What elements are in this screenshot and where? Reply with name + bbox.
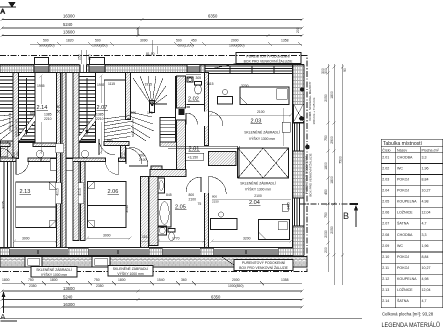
svg-text:VÝŠKY 1300 mm: VÝŠKY 1300 mm (249, 136, 275, 141)
bathroom top wall (150, 170, 186, 177)
svg-text:2210: 2210 (44, 117, 52, 121)
svg-text:ŠATNA: ŠATNA (397, 298, 409, 303)
svg-text:500: 500 (95, 39, 101, 43)
svg-text:2.11: 2.11 (382, 266, 389, 270)
svg-text:500(1200): 500(1200) (178, 44, 193, 48)
svg-text:2.05: 2.05 (382, 200, 389, 204)
svg-text:1800: 1800 (50, 278, 58, 282)
room label 2.03 (145, 82, 280, 141)
door arc stair exit (99, 139, 115, 155)
bottom interior dims (22, 234, 251, 241)
svg-text:2150: 2150 (16, 151, 20, 159)
room 2.04 desk (211, 212, 238, 230)
svg-text:1820: 1820 (66, 39, 74, 43)
stair void head wall (209, 152, 237, 166)
tiny rotated dims top right (321, 68, 347, 74)
landing wall below winder (104, 142, 129, 146)
winder stair left unit (cut at edge) (0, 77, 13, 157)
svg-text:2.13: 2.13 (382, 288, 389, 292)
bedroom top walls (0, 158, 126, 162)
bottom interior dim lines (13, 237, 293, 243)
svg-text:800: 800 (189, 193, 195, 197)
black dot drain (305, 145, 310, 150)
svg-text:POKOJ: POKOJ (397, 255, 409, 259)
stair flight stripes left unit (19, 73, 36, 143)
svg-text:POKOJ: POKOJ (397, 189, 409, 193)
svg-text:A: A (1, 314, 6, 321)
svg-text:VÝŠKY 1000 mm: VÝŠKY 1000 mm (117, 271, 143, 276)
svg-text:VÝŠKY 1000 mm: VÝŠKY 1000 mm (41, 272, 67, 277)
svg-text:LEGENDA MATERIÁLŮ: LEGENDA MATERIÁLŮ (382, 320, 441, 329)
svg-text:500: 500 (43, 39, 49, 43)
party wall (double with gap) (57, 73, 67, 248)
chimney block (294, 104, 304, 122)
svg-text:1800: 1800 (330, 176, 334, 184)
svg-text:4,98: 4,98 (422, 277, 429, 281)
svg-text:2050: 2050 (330, 226, 334, 234)
svg-text:SKLENĚNÉ ZÁBRADLÍ: SKLENĚNÉ ZÁBRADLÍ (36, 267, 72, 272)
WC fixtures (187, 77, 202, 94)
radiators at party wall (50, 159, 56, 171)
bottom small dims row (2, 278, 302, 288)
svg-text:1385: 1385 (44, 113, 52, 117)
svg-text:POKOJ: POKOJ (397, 177, 409, 181)
stairwell wall right unit (73, 73, 79, 241)
balcony paving band (0, 257, 307, 268)
svg-text:2100: 2100 (189, 198, 197, 202)
svg-text:200: 200 (296, 27, 300, 33)
svg-text:2210: 2210 (96, 117, 104, 121)
lower flight slanted treads right unit (104, 80, 154, 141)
svg-text:800: 800 (212, 195, 217, 199)
svg-text:8,84: 8,84 (422, 177, 429, 181)
svg-text:800: 800 (107, 139, 113, 143)
svg-text:Tabulka místností: Tabulka místností (383, 141, 423, 147)
svg-text:ŠATNA: ŠATNA (397, 221, 409, 226)
svg-text:12,04: 12,04 (422, 211, 431, 215)
svg-text:4,7: 4,7 (422, 222, 427, 226)
window top 3 (186, 65, 201, 75)
svg-text:4,7: 4,7 (422, 299, 427, 303)
svg-text:12,04: 12,04 (422, 288, 431, 292)
svg-text:305: 305 (196, 76, 202, 80)
svg-text:SKLENĚNÉ ZÁBRADLÍ: SKLENĚNÉ ZÁBRADLÍ (244, 130, 280, 135)
svg-text:250: 250 (78, 54, 82, 60)
svg-text:1800: 1800 (2, 278, 10, 282)
svg-text:1000(850): 1000(850) (228, 284, 243, 288)
door arc bathroom (186, 177, 201, 192)
wall between 2.05 and 2.04 (205, 177, 209, 248)
bathroom fixtures 2.05 (158, 178, 175, 241)
svg-text:3000: 3000 (22, 237, 30, 241)
svg-text:1770: 1770 (172, 237, 180, 241)
svg-text:CHODBA: CHODBA (397, 233, 413, 237)
svg-text:3200: 3200 (243, 237, 251, 241)
svg-text:90: 90 (343, 68, 347, 72)
room label 2.04 (212, 181, 291, 207)
svg-text:3,3: 3,3 (422, 155, 427, 159)
svg-text:PURENITOVÝ PODOKENNÍ: PURENITOVÝ PODOKENNÍ (242, 261, 285, 265)
svg-text:2150: 2150 (123, 151, 127, 159)
svg-text:NÁŠLAPY 270: NÁŠLAPY 270 (130, 118, 135, 137)
stairwell wall left unit (13, 73, 19, 159)
svg-text:1385: 1385 (96, 113, 104, 117)
bed room 2.13 (two singles) (16, 182, 56, 228)
radiator room 2.04 (282, 204, 288, 211)
level marks in stair bands (56, 144, 64, 153)
svg-text:2.07: 2.07 (382, 222, 389, 226)
svg-text:4015: 4015 (56, 188, 60, 196)
svg-text:10,27: 10,27 (422, 266, 431, 270)
svg-text:1000(850): 1000(850) (39, 44, 54, 48)
svg-text:1358: 1358 (281, 39, 289, 43)
svg-text:16300: 16300 (63, 14, 75, 19)
svg-text:1115: 1115 (207, 82, 214, 86)
room 2.03 bed (240, 87, 289, 105)
svg-text:2900: 2900 (330, 136, 334, 144)
glazed wall top right (205, 65, 295, 74)
title block top line (0, 317, 362, 319)
svg-text:2.09: 2.09 (382, 244, 389, 248)
room label 2.07 (57, 75, 108, 155)
svg-text:13600: 13600 (63, 30, 75, 35)
svg-text:BOX PRO VENKOVNÍ ŽALUZIE: BOX PRO VENKOVNÍ ŽALUZIE (308, 153, 313, 196)
svg-text:2.10: 2.10 (382, 255, 389, 259)
svg-text:Plocha (m²: Plocha (m² (422, 148, 440, 152)
bottom dim 16300 (1, 302, 304, 309)
svg-text:1540: 1540 (157, 278, 165, 282)
svg-text:1800: 1800 (118, 278, 126, 282)
glass railing label 2 (108, 266, 153, 277)
right vertical dim chain 2 (330, 64, 336, 285)
dimension line 5240 (1, 22, 304, 36)
svg-text:2.02: 2.02 (382, 166, 389, 170)
section marker A top (0, 3, 16, 16)
svg-text:Číslo: Číslo (382, 147, 390, 152)
svg-text:NÁŠLAPY 270: NÁŠLAPY 270 (14, 118, 19, 137)
dimension line 13600 (1, 30, 304, 38)
room label 2.05 (166, 193, 201, 211)
svg-text:750: 750 (28, 278, 34, 282)
svg-text:900: 900 (131, 111, 137, 115)
svg-text:PURENITOVÝ PODOKENNÍ: PURENITOVÝ PODOKENNÍ (246, 55, 289, 59)
svg-text:8,84: 8,84 (422, 255, 429, 259)
svg-text:NÁŠLAPY 270: NÁŠLAPY 270 (7, 112, 12, 131)
svg-text:3465: 3465 (287, 202, 291, 210)
svg-text:BOX PRO VENKOVNÍ ŽALUZIE: BOX PRO VENKOVNÍ ŽALUZIE (239, 265, 289, 270)
svg-text:16300: 16300 (63, 302, 75, 307)
right vertical dim chain 1 (324, 64, 330, 272)
svg-text:5240: 5240 (63, 22, 73, 27)
svg-text:KOUPELNA: KOUPELNA (397, 277, 417, 281)
dimension line 16300 (1, 14, 304, 22)
svg-text:1000(650): 1000(650) (229, 44, 244, 48)
svg-text:2.08: 2.08 (382, 233, 389, 237)
svg-text:WC: WC (397, 244, 403, 248)
svg-text:VÝŠKY 1300 mm: VÝŠKY 1300 mm (245, 187, 271, 192)
bottom exterior wall (0, 248, 304, 256)
svg-text:1800: 1800 (330, 91, 334, 99)
svg-text:3025: 3025 (2, 201, 6, 209)
svg-text:1000(850): 1000(850) (92, 44, 107, 48)
svg-text:450: 450 (324, 189, 328, 195)
svg-text:SKLENĚNÉ ZÁBRADLÍ: SKLENĚNÉ ZÁBRADLÍ (113, 266, 149, 271)
svg-text:Celková plocha [m²]: 93,28: Celková plocha [m²]: 93,28 (382, 312, 434, 317)
svg-text:2.03: 2.03 (382, 177, 389, 181)
right exterior wall (293, 65, 305, 256)
room label 2.14 (30, 75, 52, 155)
wall left edge stub (0, 141, 13, 158)
svg-text:LOŽNICE: LOŽNICE (397, 287, 413, 292)
bottom windows (french) (9, 250, 278, 254)
door arc bedroom 2.13 (16, 162, 29, 175)
svg-text:POKOJ: POKOJ (397, 266, 409, 270)
corridor wall left unit (0, 143, 57, 147)
door arc chodba to 2.03 (204, 112, 223, 127)
svg-text:LOŽNICE: LOŽNICE (397, 210, 413, 215)
svg-text:845: 845 (166, 193, 172, 197)
svg-text:2030: 2030 (324, 230, 328, 238)
right wall windows (293, 123, 304, 226)
svg-text:1,96: 1,96 (422, 166, 429, 170)
window top 2 (89, 58, 105, 73)
room label 2.01 with level (131, 111, 204, 160)
svg-text:2100: 2100 (254, 194, 262, 198)
door arc 2.04 (204, 176, 226, 194)
top exterior wall (0, 64, 304, 73)
svg-text:50: 50 (57, 105, 61, 109)
svg-text:6350: 6350 (211, 294, 221, 299)
svg-text:4015: 4015 (78, 188, 82, 196)
dim line 2100 room 2.03 (282, 108, 284, 146)
section marker A bottom (1, 292, 18, 322)
svg-text:SKLENĚNÉ ZÁBRADLÍ: SKLENĚNÉ ZÁBRADLÍ (240, 181, 276, 186)
svg-text:2350: 2350 (29, 284, 37, 288)
door arc bedroom 2.06 (106, 148, 143, 175)
svg-text:115: 115 (142, 235, 148, 239)
install wall between 2.06 and bath (141, 177, 149, 248)
roof overhang dash-dot outline (0, 56, 307, 272)
circles corridor (36, 150, 43, 157)
purenit box label top right (210, 53, 301, 70)
svg-text:2.06: 2.06 (382, 211, 389, 215)
svg-text:Název: Název (397, 148, 407, 152)
room 2.04 bed (259, 220, 290, 240)
winder stair right unit (131, 76, 176, 146)
svg-text:180 mm + TI 25 mm: 180 mm + TI 25 mm (312, 97, 316, 124)
facade joint at unit wall (80, 64, 87, 73)
wall corner right of landing (160, 142, 177, 146)
bed room 2.06 (two singles) (88, 182, 127, 228)
svg-text:2000: 2000 (231, 39, 239, 43)
svg-text:5240: 5240 (63, 294, 73, 299)
svg-text:2.01: 2.01 (382, 155, 389, 159)
svg-text:2100: 2100 (257, 110, 265, 114)
svg-text:1915: 1915 (145, 83, 153, 87)
svg-text:805: 805 (187, 76, 193, 80)
svg-text:300: 300 (321, 68, 325, 74)
svg-text:2050: 2050 (324, 94, 328, 102)
room label 2.13 (20, 189, 32, 195)
svg-text:500: 500 (176, 39, 182, 43)
svg-text:3000: 3000 (103, 234, 111, 238)
svg-text:B: B (343, 211, 349, 221)
svg-text:1358: 1358 (281, 278, 289, 282)
svg-text:6350: 6350 (208, 14, 218, 19)
glass railing label 1 (31, 267, 77, 278)
svg-text:CHODBA: CHODBA (397, 155, 413, 159)
svg-text:75: 75 (198, 202, 202, 206)
svg-text:800: 800 (139, 154, 145, 158)
bathroom left thick wall (149, 177, 158, 246)
svg-text:4,98: 4,98 (422, 200, 429, 204)
rooms table (381, 139, 443, 307)
small vertical dims over party wall (78, 27, 301, 64)
void glass railing with X panels (168, 146, 289, 178)
radiator room 2.03 (282, 122, 290, 132)
svg-text:2000: 2000 (232, 278, 240, 282)
svg-text:WC: WC (397, 166, 403, 170)
svg-text:360: 360 (181, 278, 187, 282)
svg-text:KOUPELNA: KOUPELNA (397, 200, 417, 204)
svg-text:750: 750 (324, 212, 328, 218)
svg-text:10,27: 10,27 (422, 189, 431, 193)
door arc corridor cut left (1, 148, 14, 161)
svg-text:450: 450 (191, 39, 197, 43)
door arc landing to chodba (129, 147, 148, 166)
svg-text:3200: 3200 (241, 84, 249, 88)
room 2.03 desk (218, 89, 233, 104)
wall left of winder (126, 73, 131, 120)
window top 1 (34, 58, 49, 73)
svg-text:BOX PRO VENKOVNÍ ŽALUZIE: BOX PRO VENKOVNÍ ŽALUZIE (244, 59, 294, 64)
stair flight stripes right unit (79, 73, 96, 143)
svg-text:1115: 1115 (108, 82, 115, 86)
svg-text:50: 50 (57, 110, 61, 114)
interior door dims (12, 82, 146, 162)
svg-text:2350: 2350 (96, 284, 104, 288)
svg-text:A: A (1, 9, 6, 16)
svg-text:750: 750 (324, 135, 328, 141)
svg-text:2100: 2100 (139, 158, 147, 162)
right vertical dim chain 3 (339, 64, 345, 285)
left cut edge lower window (4, 162, 14, 248)
svg-text:2.14: 2.14 (382, 299, 389, 303)
svg-text:175: 175 (147, 111, 153, 115)
svg-text:1,96: 1,96 (422, 244, 429, 248)
svg-text:600: 600 (30, 112, 36, 116)
room label 2.06 (108, 189, 120, 195)
dim line 2100 across 2.03 (209, 114, 292, 117)
svg-text:2150: 2150 (212, 200, 219, 204)
svg-text:3043: 3043 (125, 205, 129, 213)
railing end post (237, 146, 239, 178)
svg-text:13600: 13600 (63, 286, 75, 291)
WC walls (177, 76, 186, 108)
rotated dims (2, 81, 317, 212)
svg-text:3090: 3090 (140, 39, 148, 43)
svg-text:3,3: 3,3 (422, 233, 427, 237)
svg-text:7500: 7500 (339, 156, 343, 164)
svg-text:1800: 1800 (324, 162, 328, 170)
small dimension row top (30, 39, 302, 57)
svg-text:2.04: 2.04 (382, 189, 389, 193)
section marker B with dash-dot (300, 204, 358, 227)
bottom dim 5240 (1, 294, 304, 301)
svg-text:750: 750 (94, 278, 100, 282)
purenit label bottom (222, 257, 293, 271)
svg-text:+3,150: +3,150 (188, 156, 199, 160)
door arc WC (186, 113, 198, 125)
bottom dim 13600 (1, 286, 304, 293)
room label 2.02 (187, 76, 202, 103)
svg-text:2.12: 2.12 (382, 277, 389, 281)
svg-text:200: 200 (324, 247, 328, 253)
